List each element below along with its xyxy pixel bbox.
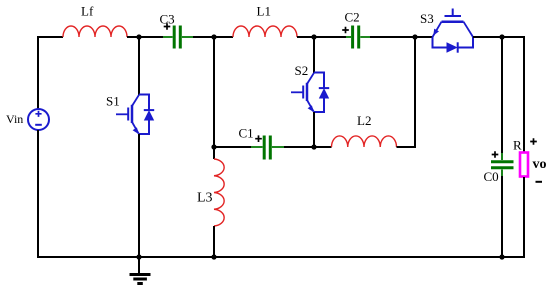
source Vin	[28, 109, 49, 130]
wire S1 branch upper (node A down to S1)	[138, 37, 140, 95]
junction node B (C3/L1/C1 branch)	[211, 34, 216, 39]
svg-text:Vin: Vin	[6, 112, 23, 126]
wire C0 branch lower (C0 to bottom rail)	[501, 176, 503, 258]
wire node C down to S2	[313, 37, 315, 73]
svg-text:Lf: Lf	[81, 4, 94, 19]
wire top rail: Lf to C3	[127, 36, 163, 38]
svg-text:L2: L2	[357, 113, 371, 128]
resistor R (load)	[520, 153, 528, 177]
wire top rail: L1 to C2	[297, 36, 346, 38]
wire S2 to node G	[313, 112, 315, 148]
junction S1-emitter node on bottom rail	[136, 254, 141, 259]
inductor L1	[233, 26, 297, 37]
transistor S1 (IGBT with antiparallel diode)	[116, 95, 154, 135]
svg-text:S1: S1	[106, 94, 120, 109]
inductor Lf	[63, 26, 127, 37]
svg-text:vo: vo	[533, 157, 547, 172]
wire node B down to node F	[213, 37, 215, 148]
svg-text:C1: C1	[239, 126, 254, 141]
wire left branch lower (Vin to bottom rail)	[37, 130, 39, 258]
wire C0 branch upper (node E down to C0)	[501, 37, 503, 153]
inductor L2	[332, 136, 397, 147]
output minus (vo)	[536, 181, 543, 183]
wire right edge upper (top corner to R)	[523, 36, 525, 152]
wire S1 branch lower (S1 to bottom rail)	[138, 134, 140, 258]
wire right edge lower (R to bottom corner)	[523, 177, 525, 258]
svg-text:L3: L3	[197, 191, 213, 206]
capacitor C1	[214, 136, 284, 160]
capacitor C2	[346, 26, 370, 49]
inductor L3	[214, 159, 224, 226]
wire C1 to node G	[284, 146, 332, 148]
junction L3 node on bottom rail	[211, 254, 216, 259]
svg-text:C2: C2	[345, 10, 360, 25]
wire top rail: left corner to Lf	[38, 36, 63, 38]
polarity plus of C1	[255, 135, 262, 142]
wire L3 to bottom rail	[213, 226, 215, 258]
polarity plus of C3	[164, 23, 171, 30]
junction node G (S2 emitter / C1 / L2)	[311, 144, 316, 149]
transistor S2 (IGBT with antiparallel diode)	[291, 73, 329, 113]
svg-text:R: R	[513, 138, 522, 153]
wire top rail: C2 to S3	[370, 36, 433, 38]
wire left branch upper (corner to Vin)	[37, 36, 39, 109]
output plus (vo)	[530, 138, 537, 145]
wire L2 to riser	[397, 37, 416, 147]
transistor S3 (IGBT with antiparallel diode, horizontal)	[433, 9, 474, 53]
junction node A (Lf/C3/S1)	[136, 34, 141, 39]
capacitor C3	[163, 26, 193, 49]
wire top rail: C3 to L1	[193, 36, 233, 38]
svg-text:S3: S3	[420, 11, 434, 26]
capacitor C0	[491, 153, 514, 176]
junction node D (C2/S3/L2 branch)	[412, 34, 417, 39]
svg-text:C0: C0	[484, 169, 499, 184]
wire L3 branch upper stub	[213, 147, 215, 159]
polarity plus of C2	[342, 27, 349, 34]
ground	[130, 257, 151, 284]
wire bottom rail	[38, 256, 524, 258]
junction node E (C0 branch on top rail)	[499, 34, 504, 39]
wire top rail: S3 to right corner	[473, 36, 524, 38]
junction node C (L1/C2/S2 branch)	[311, 34, 316, 39]
svg-text:L1: L1	[257, 4, 271, 19]
svg-text:S2: S2	[295, 63, 309, 78]
junction node F (C1/L3 tie)	[211, 144, 216, 149]
junction C0 node on bottom rail	[499, 254, 504, 259]
polarity plus of C0	[492, 151, 499, 158]
